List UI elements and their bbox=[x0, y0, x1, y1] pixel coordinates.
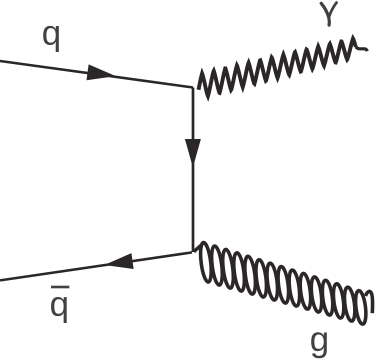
label qbar: q bbox=[51, 297, 67, 323]
photon wavy line bbox=[199, 39, 356, 97]
internal quark propagator bbox=[192, 88, 195, 253]
label qbar: overline bbox=[51, 286, 69, 289]
gluon start arc bbox=[194, 245, 202, 252]
quark line q incoming bbox=[0, 61, 193, 88]
photon end tail bbox=[356, 47, 368, 51]
arrow on propagator (down) bbox=[185, 139, 201, 168]
arrow on quark line bbox=[86, 64, 115, 80]
gluon end tail bbox=[366, 292, 373, 314]
gluon coil loops bbox=[199, 242, 213, 283]
label g bbox=[311, 332, 327, 358]
label gamma bbox=[321, 3, 329, 25]
antiquark line qbar incoming bbox=[0, 252, 192, 280]
label q bbox=[43, 26, 59, 52]
arrow on antiquark line (pointing left) bbox=[104, 253, 133, 269]
